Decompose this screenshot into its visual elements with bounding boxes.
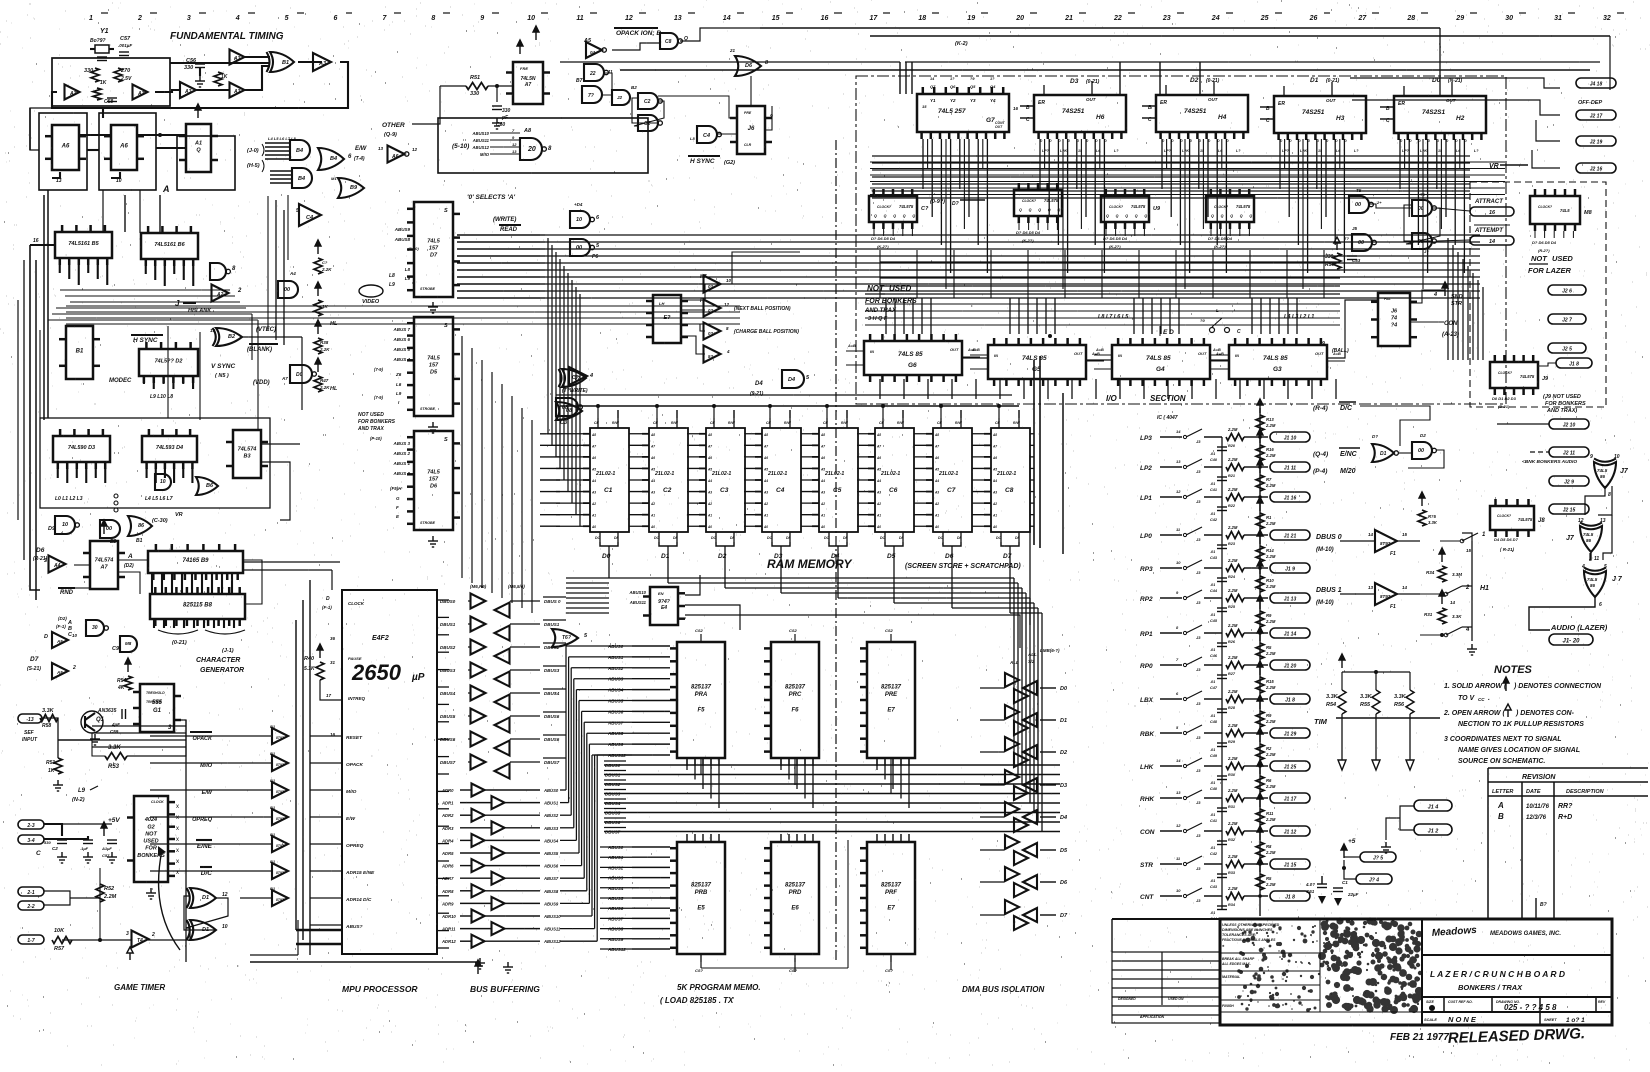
svg-text:A3: A3 [876,491,881,495]
svg-text:3.3K: 3.3K [42,708,55,714]
svg-text:R7: R7 [1266,477,1272,482]
svg-text:(R-2?): (R-2?) [1538,248,1550,253]
svg-text:Y2: Y2 [950,98,956,103]
svg-text:R32: R32 [1228,838,1236,842]
svg-text:1. SOLID ARROW (: 1. SOLID ARROW ( [1444,683,1507,690]
svg-text:74L5N: 74L5N [520,76,535,82]
svg-text:(F-1): (F-1) [322,605,332,610]
svg-text:C42: C42 [1210,852,1218,856]
data bus ram to dma [608,546,610,578]
svg-text:21: 21 [1064,15,1073,22]
svg-text:ADR10: ADR10 [441,914,456,919]
svg-text:R53: R53 [108,764,120,770]
svg-text:ABUS10: ABUS10 [543,914,561,919]
svg-text:R20: R20 [1228,444,1236,448]
svg-text:3.3K: 3.3K [1428,520,1438,525]
svg-text:USED: USED [889,284,911,293]
svg-text:330: 330 [84,68,93,74]
svg-text:.01: .01 [1210,879,1215,883]
svg-text:D0: D0 [1060,686,1067,692]
svg-text:D?: D? [952,201,959,207]
resistor R57 [52,937,72,944]
cpu bottom rail [250,961,480,963]
svg-text:HBLANK: HBLANK [188,308,212,314]
svg-text:2.2M: 2.2M [1227,457,1238,462]
svg-text:ABUS6: ABUS6 [543,864,559,869]
svg-text:A2: A2 [876,502,881,506]
svg-text:ATTEMPT: ATTEMPT [1474,228,1504,234]
svg-text:R8: R8 [1266,844,1272,849]
RAM 21L02 C7 [926,428,972,532]
oval J2 6 [1548,285,1586,295]
counter J6r [1371,293,1417,346]
svg-text:21L02-1: 21L02-1 [595,471,615,477]
svg-text:J3: J3 [1196,800,1201,805]
svg-text:B9: B9 [350,185,358,191]
svg-text:L8: L8 [389,273,395,279]
wires d2 pins [143,376,145,384]
svg-text:Q: Q [1106,214,1109,218]
svg-text:J3: J3 [1196,735,1201,740]
svg-text:A2: A2 [650,502,655,506]
RAM 21L02 C1 [583,428,629,532]
svg-text:J2 19: J2 19 [1590,140,1603,146]
svg-text:18: 18 [918,15,926,22]
svg-text:ADR7: ADR7 [441,876,454,881]
wires j6r [1410,290,1445,303]
svg-text:E7: E7 [887,708,895,714]
svg-text:T6?: T6? [562,635,571,641]
svg-text:L9 L10 L8: L9 L10 L8 [150,394,173,400]
svg-text:F5: F5 [697,708,705,714]
svg-text:L?K: L?K [1182,149,1189,153]
wire audio out [1529,596,1595,630]
svg-text:3: 3 [187,15,191,22]
DMA buffer pair D3 [1005,770,1019,784]
svg-text:2-3: 2-3 [26,823,34,829]
svg-text:DBUS0: DBUS0 [440,599,456,604]
svg-text:21L02-1: 21L02-1 [996,471,1016,477]
svg-text:MATERIAL: MATERIAL [1222,975,1240,979]
cross nand C2b [638,115,658,131]
svg-text:R34: R34 [1228,903,1236,907]
abus to prom wires [560,789,566,791]
svg-text:C42: C42 [1210,518,1218,522]
revision table [1488,768,1648,920]
svg-text:(F5)H: (F5)H [390,486,402,491]
DMA buffer pair D0 [1005,673,1019,687]
svg-text:20: 20 [527,146,536,153]
svg-text:N O N E: N O N E [1448,1015,1477,1024]
svg-text:A: A [1497,801,1504,810]
svg-text:A0: A0 [992,525,997,529]
svg-text:CLOCK?: CLOCK? [1109,205,1123,209]
connector oval J1 10 [1270,432,1310,442]
wires topcenter [612,43,660,50]
brace J-1 [205,630,245,634]
svg-text:Q1: Q1 [96,717,105,723]
svg-text:R/W: R/W [728,421,736,425]
misc switch mid [1210,328,1215,333]
svg-text:OUT: OUT [1074,351,1083,356]
svg-text:J1 11: J1 11 [1284,466,1296,472]
svg-text:H4: H4 [1218,114,1227,121]
dash box right [1470,182,1606,407]
svg-text:DO: DO [938,536,944,540]
svg-text:17: 17 [870,15,879,22]
svg-text:F: F [396,505,399,510]
wire j7c chain [1589,553,1591,560]
svg-text:R51: R51 [46,760,55,766]
oval J2 7 [1548,314,1586,324]
svg-text:A1: A1 [650,514,655,518]
svg-text:10: 10 [62,522,68,528]
svg-text:J2 6: J2 6 [1562,289,1572,295]
svg-text:D5: D5 [430,370,438,376]
svg-text:C45: C45 [1210,619,1218,623]
wire e4 out [685,575,700,595]
wires right ovals [1350,78,1560,88]
svg-text:M/IO: M/IO [346,789,357,795]
svg-text:PRE: PRE [885,692,898,698]
svg-text:(S-21): (S-21) [27,666,41,672]
svg-text:ABUS9: ABUS9 [543,901,559,906]
svg-text:OUT: OUT [1208,97,1219,102]
svg-text:USED ON: USED ON [1168,997,1184,1001]
capacitor C59 [122,709,126,719]
svg-text:D: D [44,634,48,640]
nand D4m [570,211,590,228]
svg-text:4: 4 [1433,292,1437,298]
svg-text:A5: A5 [876,467,881,471]
svg-text:(M-10): (M-10) [1316,547,1334,553]
svg-text:A7: A7 [820,444,825,448]
svg-text:L4 L5 L6 L7: L4 L5 L6 L7 [145,496,173,502]
wires B9-B8 [151,573,153,594]
svg-text:22µF: 22µF [1347,892,1359,897]
svg-text:Q: Q [196,148,201,154]
connector oval 3-4 [18,835,44,844]
svg-text:.01: .01 [1210,550,1215,554]
svg-text:A1µF: A1µF [101,846,112,851]
svg-text:A8: A8 [650,433,655,437]
svg-text:(Q-4): (Q-4) [1313,451,1328,458]
svg-text:3 H Q F: 3 H Q F [868,316,888,322]
svg-text:ABUS8: ABUS8 [543,889,559,894]
resistor R51 [54,758,62,774]
svg-text:A6: A6 [391,154,399,160]
svg-text:ABUS 2: ABUS 2 [392,451,410,456]
flip-flop A7top [506,62,550,104]
svg-text:C9: C9 [112,646,120,652]
svg-text:R?5: R?5 [1428,514,1437,519]
svg-text:19: 19 [967,15,975,22]
svg-text:Q: Q [1038,208,1041,212]
svg-text:A7: A7 [876,444,881,448]
svg-text:A: A [127,553,133,560]
connector oval J1 25 [1270,761,1310,771]
svg-text:21L02-1: 21L02-1 [938,471,958,477]
svg-text:8T97: 8T97 [276,817,285,821]
svg-text:H3: H3 [1336,115,1345,122]
input stubs B4b [270,170,292,172]
svg-text:26: 26 [1309,15,1318,22]
svg-text:(0-21): (0-21) [1326,78,1340,84]
svg-text:CNT: CNT [1140,894,1154,901]
svg-text:C3: C3 [720,487,729,494]
svg-text:2.2M: 2.2M [1265,719,1276,724]
svg-text:12: 12 [1176,823,1181,828]
svg-text:A3: A3 [591,491,596,495]
svg-text:00: 00 [1418,448,1424,454]
svg-text:.01: .01 [1210,748,1215,752]
svg-text:A1: A1 [992,514,997,518]
switch 1 [1440,540,1460,542]
svg-text:T?: T? [574,376,580,382]
svg-text:10/11/76: 10/11/76 [1526,804,1550,810]
svg-text:RR?: RR? [1558,803,1573,810]
svg-text:DBUS2: DBUS2 [440,645,456,650]
svg-text:10: 10 [576,217,582,223]
svg-text:R16: R16 [1266,447,1274,452]
svg-text:A3: A3 [69,91,77,97]
svg-text:3.3K: 3.3K [1452,614,1462,619]
PROM PRF E7 [860,842,915,954]
ram addr verticals [547,238,549,434]
svg-text:16: 16 [1013,106,1019,111]
wire B5 left [30,244,55,246]
svg-text:C6: C6 [889,487,898,494]
svg-text:14: 14 [1450,600,1456,605]
svg-text:6: 6 [1599,602,1602,608]
svg-text:TIM: TIM [1314,717,1328,726]
oval J2 10 [1549,419,1589,429]
svg-text:R34: R34 [1426,570,1435,575]
svg-text:R56: R56 [1394,702,1405,708]
wire comparator chain [962,357,988,359]
svg-text:025 - ? ? 4 5 8: 025 - ? ? 4 5 8 [1504,1003,1557,1012]
svg-text:E/W: E/W [355,146,368,152]
nand P6 [570,239,590,256]
svg-text:ABUS 7: ABUS 7 [392,327,410,332]
svg-text:2.2M: 2.2M [1227,788,1238,793]
svg-text:(G2): (G2) [724,160,735,166]
h bus 60 [560,61,900,63]
svg-text:?4: ?4 [1391,323,1397,329]
svg-text:A6: A6 [876,456,881,460]
svg-text:x: x [176,826,179,832]
svg-text:2.2K: 2.2K [319,385,330,390]
svg-text:R/W: R/W [1013,421,1021,425]
resistor R52 [96,884,104,902]
svg-text:30: 30 [1505,15,1513,22]
svg-text:16: 16 [33,238,39,244]
svg-text:RAM MEMORY: RAM MEMORY [767,557,852,571]
svg-text:8T97: 8T97 [276,763,285,767]
svg-text:74L5: 74L5 [1597,468,1608,473]
svg-text:10: 10 [1176,560,1181,565]
svg-text:DO: DO [654,536,660,540]
svg-text:CS?: CS? [789,968,798,973]
svg-text:ER: ER [1160,100,1167,106]
wire dma right [1040,687,1056,689]
svg-text:3: 3 [44,558,47,564]
svg-text:00: 00 [576,245,582,251]
wires under B5B6 [60,289,230,291]
nand 22t [584,64,604,81]
svg-text:J2 16: J2 16 [1590,167,1603,173]
xor gate B2 [216,328,242,346]
svg-text:J2 5: J2 5 [1562,347,1572,353]
PROM PRB E5 [670,842,725,954]
svg-text:3: 3 [126,931,129,937]
svg-text:2.2K: 2.2K [321,267,332,272]
svg-text:A8: A8 [763,433,768,437]
svg-text:ABUS 6: ABUS 6 [392,337,410,342]
svg-text:FRE: FRE [520,66,528,71]
svg-text:(M6,5/6): (M6,5/6) [508,584,525,589]
wires B8 down [153,619,155,628]
svg-text:NOT: NOT [867,284,885,293]
svg-text:INTREQ: INTREQ [348,696,366,701]
nand B2t [612,90,630,105]
buffer F1b [1375,583,1397,605]
and gate C7b [290,365,312,383]
svg-text:A0: A0 [650,525,655,529]
svg-text:2.2M: 2.2M [1265,423,1276,428]
svg-text:A7: A7 [591,444,596,448]
svg-text:NOTES: NOTES [1494,664,1533,676]
svg-text:R47: R47 [320,378,329,383]
svg-text:2.2M: 2.2M [1265,685,1276,690]
xor gate D1b [190,920,216,940]
svg-text:DO: DO [996,536,1002,540]
svg-text:TRESHOLD: TRESHOLD [146,691,165,695]
nor gate D1io [1372,444,1394,462]
svg-text:5K PROGRAM MEMO.: 5K PROGRAM MEMO. [677,983,761,992]
register D2 [139,342,198,383]
svg-text:AN3635: AN3635 [97,708,117,714]
resistor R51t [466,83,488,90]
svg-text:74L575: 74L575 [1518,517,1533,522]
svg-text:(D2): (D2) [124,563,134,569]
svg-text:ER: ER [1278,101,1285,107]
svg-text:14: 14 [1176,429,1181,434]
svg-text:AUDIO (LAZER): AUDIO (LAZER) [1550,623,1608,632]
comparator 74LS85 G4 [1112,338,1210,386]
connector oval J1 11 [1270,462,1310,472]
svg-text:C49: C49 [1210,754,1218,758]
wires char area [118,559,148,561]
svg-text:A5: A5 [591,467,596,471]
cross nand K1a [1412,200,1432,216]
svg-text:OTHER: OTHER [382,122,405,129]
svg-text:A3: A3 [233,89,241,95]
wires vsync [242,336,302,338]
svg-text:.01: .01 [1210,613,1215,617]
svg-text:A4: A4 [707,479,712,483]
svg-text:B1: B1 [270,724,276,729]
buffer A2 [212,285,229,302]
oval J3 5 [1360,852,1396,862]
svg-text:P6: P6 [592,254,598,260]
svg-text:PRC: PRC [789,692,802,698]
svg-text:CLOCK?: CLOCK? [1497,514,1511,518]
svg-text:A4: A4 [763,479,768,483]
svg-text:17: 17 [326,693,332,698]
svg-text:C43: C43 [1210,885,1218,889]
svg-text:2.2M: 2.2M [1227,655,1238,660]
svg-text:D1: D1 [1380,451,1387,457]
svg-text:.01: .01 [1210,911,1215,915]
PROM PRD E6 [764,842,819,954]
svg-text:FOR: FOR [145,846,157,852]
svg-text:2.2M: 2.2M [1265,554,1276,559]
svg-text:Q5: Q5 [970,84,976,89]
svg-text:A7: A7 [992,444,997,448]
svg-text:J3: J3 [1196,469,1201,474]
svg-text:2.2M: 2.2M [1265,521,1276,526]
svg-text:J1 4: J1 4 [1428,804,1439,810]
svg-text:J1 12: J1 12 [1284,830,1297,836]
svg-text:1?: 1? [950,77,955,81]
svg-text:STROBE: STROBE [420,407,436,411]
left mid verticals2 [275,200,277,340]
svg-text:DBUS3: DBUS3 [440,668,456,673]
svg-text:5: 5 [285,15,289,22]
and gate C8t [660,33,678,49]
svg-text:DBUS 0: DBUS 0 [1316,534,1342,541]
svg-text:RHK: RHK [1140,796,1155,803]
buffer A5b [52,663,68,679]
box around D3 D4 [40,418,270,508]
svg-text:ER: ER [1398,101,1405,107]
svg-text:D1: D1 [1060,718,1067,724]
svg-text:SCALE: SCALE [1424,1018,1437,1022]
svg-text:RBK: RBK [1140,731,1155,738]
svg-text:(T?WRITE): (T?WRITE) [562,388,588,394]
svg-text:8: 8 [431,15,435,22]
svg-text:R31: R31 [1228,805,1235,809]
svg-text:5?: 5? [708,354,714,359]
xor gate J7a [1594,459,1616,489]
svg-text:J?: J? [1424,249,1429,254]
svg-text:12: 12 [625,15,633,22]
svg-text:M/IO: M/IO [480,152,490,157]
resistor r2.2k c [314,338,322,354]
svg-text:86: 86 [1590,583,1596,588]
svg-text:CLOCK: CLOCK [151,800,164,804]
svg-text:J1 2: J1 2 [1428,828,1439,834]
svg-text:21L02-1: 21L02-1 [711,471,731,477]
svg-text:B1: B1 [270,751,276,756]
svg-text:x: x [176,848,179,854]
svg-text:Q: Q [874,214,877,218]
svg-text:14: 14 [1489,239,1495,245]
svg-text:B4: B4 [298,176,305,182]
svg-text:ABUS5: ABUS5 [543,851,559,856]
svg-text:R54: R54 [117,678,126,684]
svg-text:C?: C? [921,206,929,212]
svg-text:9: 9 [1322,341,1325,347]
svg-text:3-4: 3-4 [27,838,34,844]
svg-text:DBUS7: DBUS7 [440,760,456,765]
svg-text:15: 15 [1466,548,1472,553]
big dot [1429,1005,1435,1011]
svg-text:A4: A4 [289,271,296,276]
counter B6 [141,226,198,266]
buffer big [299,204,321,226]
